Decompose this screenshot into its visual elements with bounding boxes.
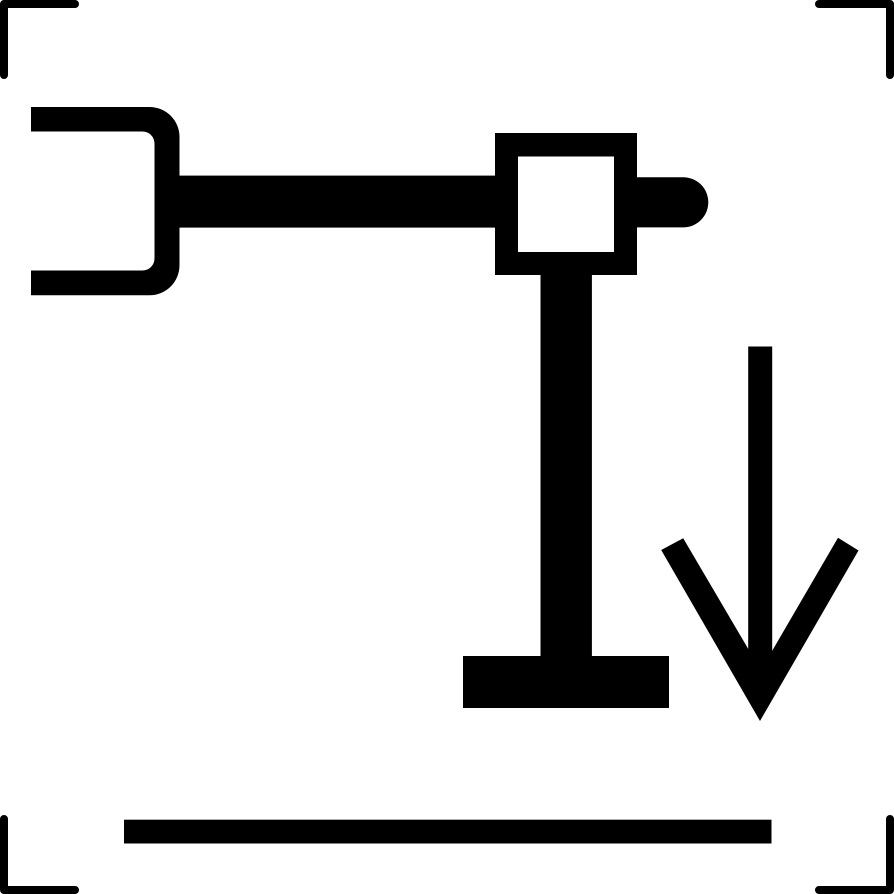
corner bracket bottom-right (819, 819, 890, 890)
horizontal arm (167, 176, 500, 228)
clamp fork (31, 107, 180, 295)
carriage square outline (495, 133, 637, 275)
print bed line (124, 820, 772, 844)
rounded stub right of carriage (637, 177, 708, 227)
carriage square inner hole (518, 157, 614, 253)
corner bracket bottom-left (4, 819, 75, 890)
corner bracket top-right (819, 4, 890, 75)
vertical column (541, 270, 592, 656)
down arrow head (661, 538, 858, 721)
base plate (463, 656, 669, 708)
corner bracket top-left (4, 4, 75, 75)
down arrow shaft (748, 347, 772, 681)
